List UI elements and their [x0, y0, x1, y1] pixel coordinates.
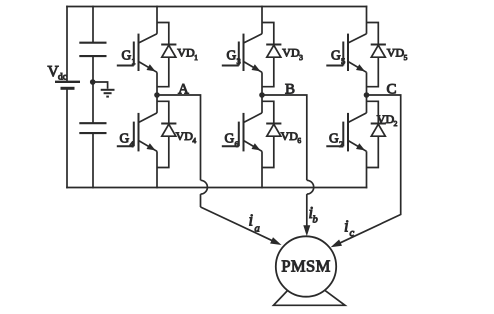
wire collector diagonal G2: [348, 113, 367, 123]
current arrow ic into motor: [331, 240, 342, 248]
wire collector drop G6 (node B to IGBT G6): [261, 95, 263, 113]
transistor Q6 IGBT G6 (lower): [222, 113, 244, 151]
wire diode VD4 anode to emitter: [157, 136, 169, 167]
wire diode VD1 anode to emitter: [157, 57, 169, 86]
wire diode VD5 anode to emitter: [367, 57, 379, 86]
svg-text:i: i: [344, 217, 349, 236]
svg-text:1: 1: [194, 53, 198, 62]
svg-text:VD: VD: [282, 46, 300, 60]
wire emitter G5 to phase node C: [366, 72, 368, 95]
svg-text:1: 1: [132, 56, 136, 66]
wire diode VD3 anode to emitter: [262, 57, 274, 86]
svg-text:3: 3: [237, 56, 241, 66]
wire emitter diagonal G3: [244, 62, 263, 73]
wire diode tap VD1 (collector wire to diode cathode): [157, 23, 169, 45]
svg-text:VD: VD: [377, 112, 395, 126]
wire midpoint node to C2 top plate: [92, 82, 94, 123]
svg-text:G: G: [329, 131, 339, 146]
diode VD4 (lower freewheeling): [161, 124, 176, 137]
wire diode VD6 anode to emitter: [262, 136, 274, 167]
wire C1 bottom plate to midpoint node: [92, 56, 94, 82]
emitter arrow G2: [356, 143, 365, 150]
svg-text:G: G: [120, 131, 130, 146]
wire emitter G2 to bottom bus: [366, 151, 368, 188]
wire collector drop G5 (top bus to IGBT G5): [366, 6, 368, 34]
wire emitter G1 to phase node A: [156, 72, 158, 95]
svg-text:VD: VD: [281, 129, 299, 143]
battery Vdc negative plate (short): [61, 87, 75, 90]
emitter arrow G3: [252, 64, 261, 71]
motor PMSM mounting base: [274, 289, 346, 305]
wire diode tap VD6 (collector wire to diode cathode): [262, 101, 274, 123]
wire diode VD2 anode to emitter: [367, 136, 379, 167]
transistor Q3 IGBT G3 (upper): [222, 34, 244, 71]
diode VD1 (upper freewheeling): [161, 45, 176, 58]
wire emitter G4 to bottom bus: [156, 151, 158, 188]
node B junction dot: [259, 92, 265, 98]
wire phase A hop over bottom bus: [201, 180, 208, 194]
wire collector drop G3 (top bus to IGBT G3): [261, 6, 263, 34]
svg-text:G: G: [122, 48, 132, 63]
wire C2 bottom plate to bottom bus: [92, 133, 94, 188]
wire emitter diagonal G4: [139, 141, 158, 152]
battery Vdc positive plate (long): [55, 81, 80, 83]
wire collector drop G4 (node A to IGBT G4): [156, 95, 158, 113]
svg-text:G: G: [331, 48, 341, 63]
wire bottom DC bus (-) from left bus to leg C: [66, 187, 367, 189]
wire phase B output (node B right then down to hop): [262, 95, 307, 228]
wire diode tap VD5 (collector wire to diode cathode): [367, 23, 379, 45]
wire emitter diagonal G5: [348, 62, 367, 73]
wire midpoint node to ground symbol: [93, 82, 108, 89]
emitter arrow G5: [356, 64, 365, 71]
wire diode tap VD3 (collector wire to diode cathode): [262, 23, 274, 45]
wire collector diagonal G6: [244, 113, 263, 123]
emitter arrow G1: [147, 64, 156, 71]
diode VD3 (upper freewheeling): [266, 45, 281, 58]
svg-text:VD: VD: [387, 46, 405, 60]
svg-text:6: 6: [297, 136, 301, 145]
emitter arrow G6: [252, 143, 261, 150]
wire diode tap VD4 (collector wire to diode cathode): [157, 101, 169, 123]
svg-text:3: 3: [299, 53, 303, 62]
wire collector diagonal G4: [139, 113, 158, 123]
wire top DC bus (+) from left bus to leg C: [66, 6, 367, 8]
wire collector diagonal G5: [348, 34, 367, 43]
wire phase C output (node C right then down then diagonal to motor): [336, 95, 401, 245]
svg-text:c: c: [350, 228, 355, 239]
emitter arrow G4: [147, 143, 156, 150]
diode VD5 (upper freewheeling): [371, 45, 386, 58]
wire capacitor branch top (top bus to C1 top plate): [92, 6, 94, 43]
capacitor C1 (upper DC-link): [79, 43, 106, 56]
svg-text:2: 2: [339, 139, 343, 149]
transistor Q4 IGBT G4 (lower): [117, 113, 139, 151]
capacitor C2 (lower DC-link): [79, 123, 106, 133]
diode VD6 (lower freewheeling): [266, 124, 281, 137]
wire diode tap VD2 (collector wire to diode cathode): [367, 101, 379, 123]
transistor Q5 IGBT G5 (upper): [326, 34, 348, 71]
wire emitter diagonal G6: [244, 141, 263, 152]
wire phase B hop over bottom bus: [307, 180, 314, 194]
wire left bus lower segment (battery - to bottom bus): [66, 88, 68, 188]
svg-text:5: 5: [404, 53, 408, 62]
current arrow ib into motor: [303, 225, 310, 236]
wire emitter diagonal G1: [139, 62, 158, 73]
wire phase A diagonal to motor with current arrow ia: [201, 207, 276, 242]
svg-text:G: G: [227, 48, 237, 63]
wire collector drop G1 (top bus to IGBT G1): [156, 6, 158, 34]
node C junction dot: [364, 92, 370, 98]
svg-text:5: 5: [341, 56, 345, 66]
wire emitter G6 to bottom bus: [261, 151, 263, 188]
wire collector diagonal G1: [139, 34, 158, 43]
svg-text:4: 4: [192, 136, 196, 145]
svg-text:i: i: [249, 211, 254, 230]
svg-text:b: b: [313, 215, 318, 226]
svg-text:a: a: [255, 224, 260, 235]
wire left bus upper segment (top bus to battery +): [66, 6, 68, 82]
wire emitter diagonal G2: [348, 141, 367, 152]
svg-text:6: 6: [235, 139, 239, 149]
transistor Q2 IGBT G2 (lower): [326, 113, 348, 151]
transistor Q1 IGBT G1 (upper): [117, 34, 139, 71]
svg-text:G: G: [225, 131, 235, 146]
motor M1 PMSM body circle: [276, 236, 336, 296]
ground symbol (DC-link midpoint): [101, 90, 115, 97]
wire emitter G3 to phase node B: [261, 72, 263, 95]
node DC-link midpoint junction: [90, 79, 96, 85]
wire collector drop G2 (node C to IGBT G2): [366, 95, 368, 113]
wire phase A output (node A right then down to hop): [157, 95, 201, 207]
wire collector diagonal G3: [244, 34, 263, 43]
svg-text:VD: VD: [176, 129, 194, 143]
svg-text:PMSM: PMSM: [281, 257, 330, 276]
node A junction dot: [154, 92, 160, 98]
svg-text:2: 2: [394, 119, 398, 128]
diode VD2 (lower freewheeling): [371, 124, 386, 137]
svg-text:VD: VD: [177, 46, 195, 60]
svg-text:dc: dc: [58, 73, 67, 83]
